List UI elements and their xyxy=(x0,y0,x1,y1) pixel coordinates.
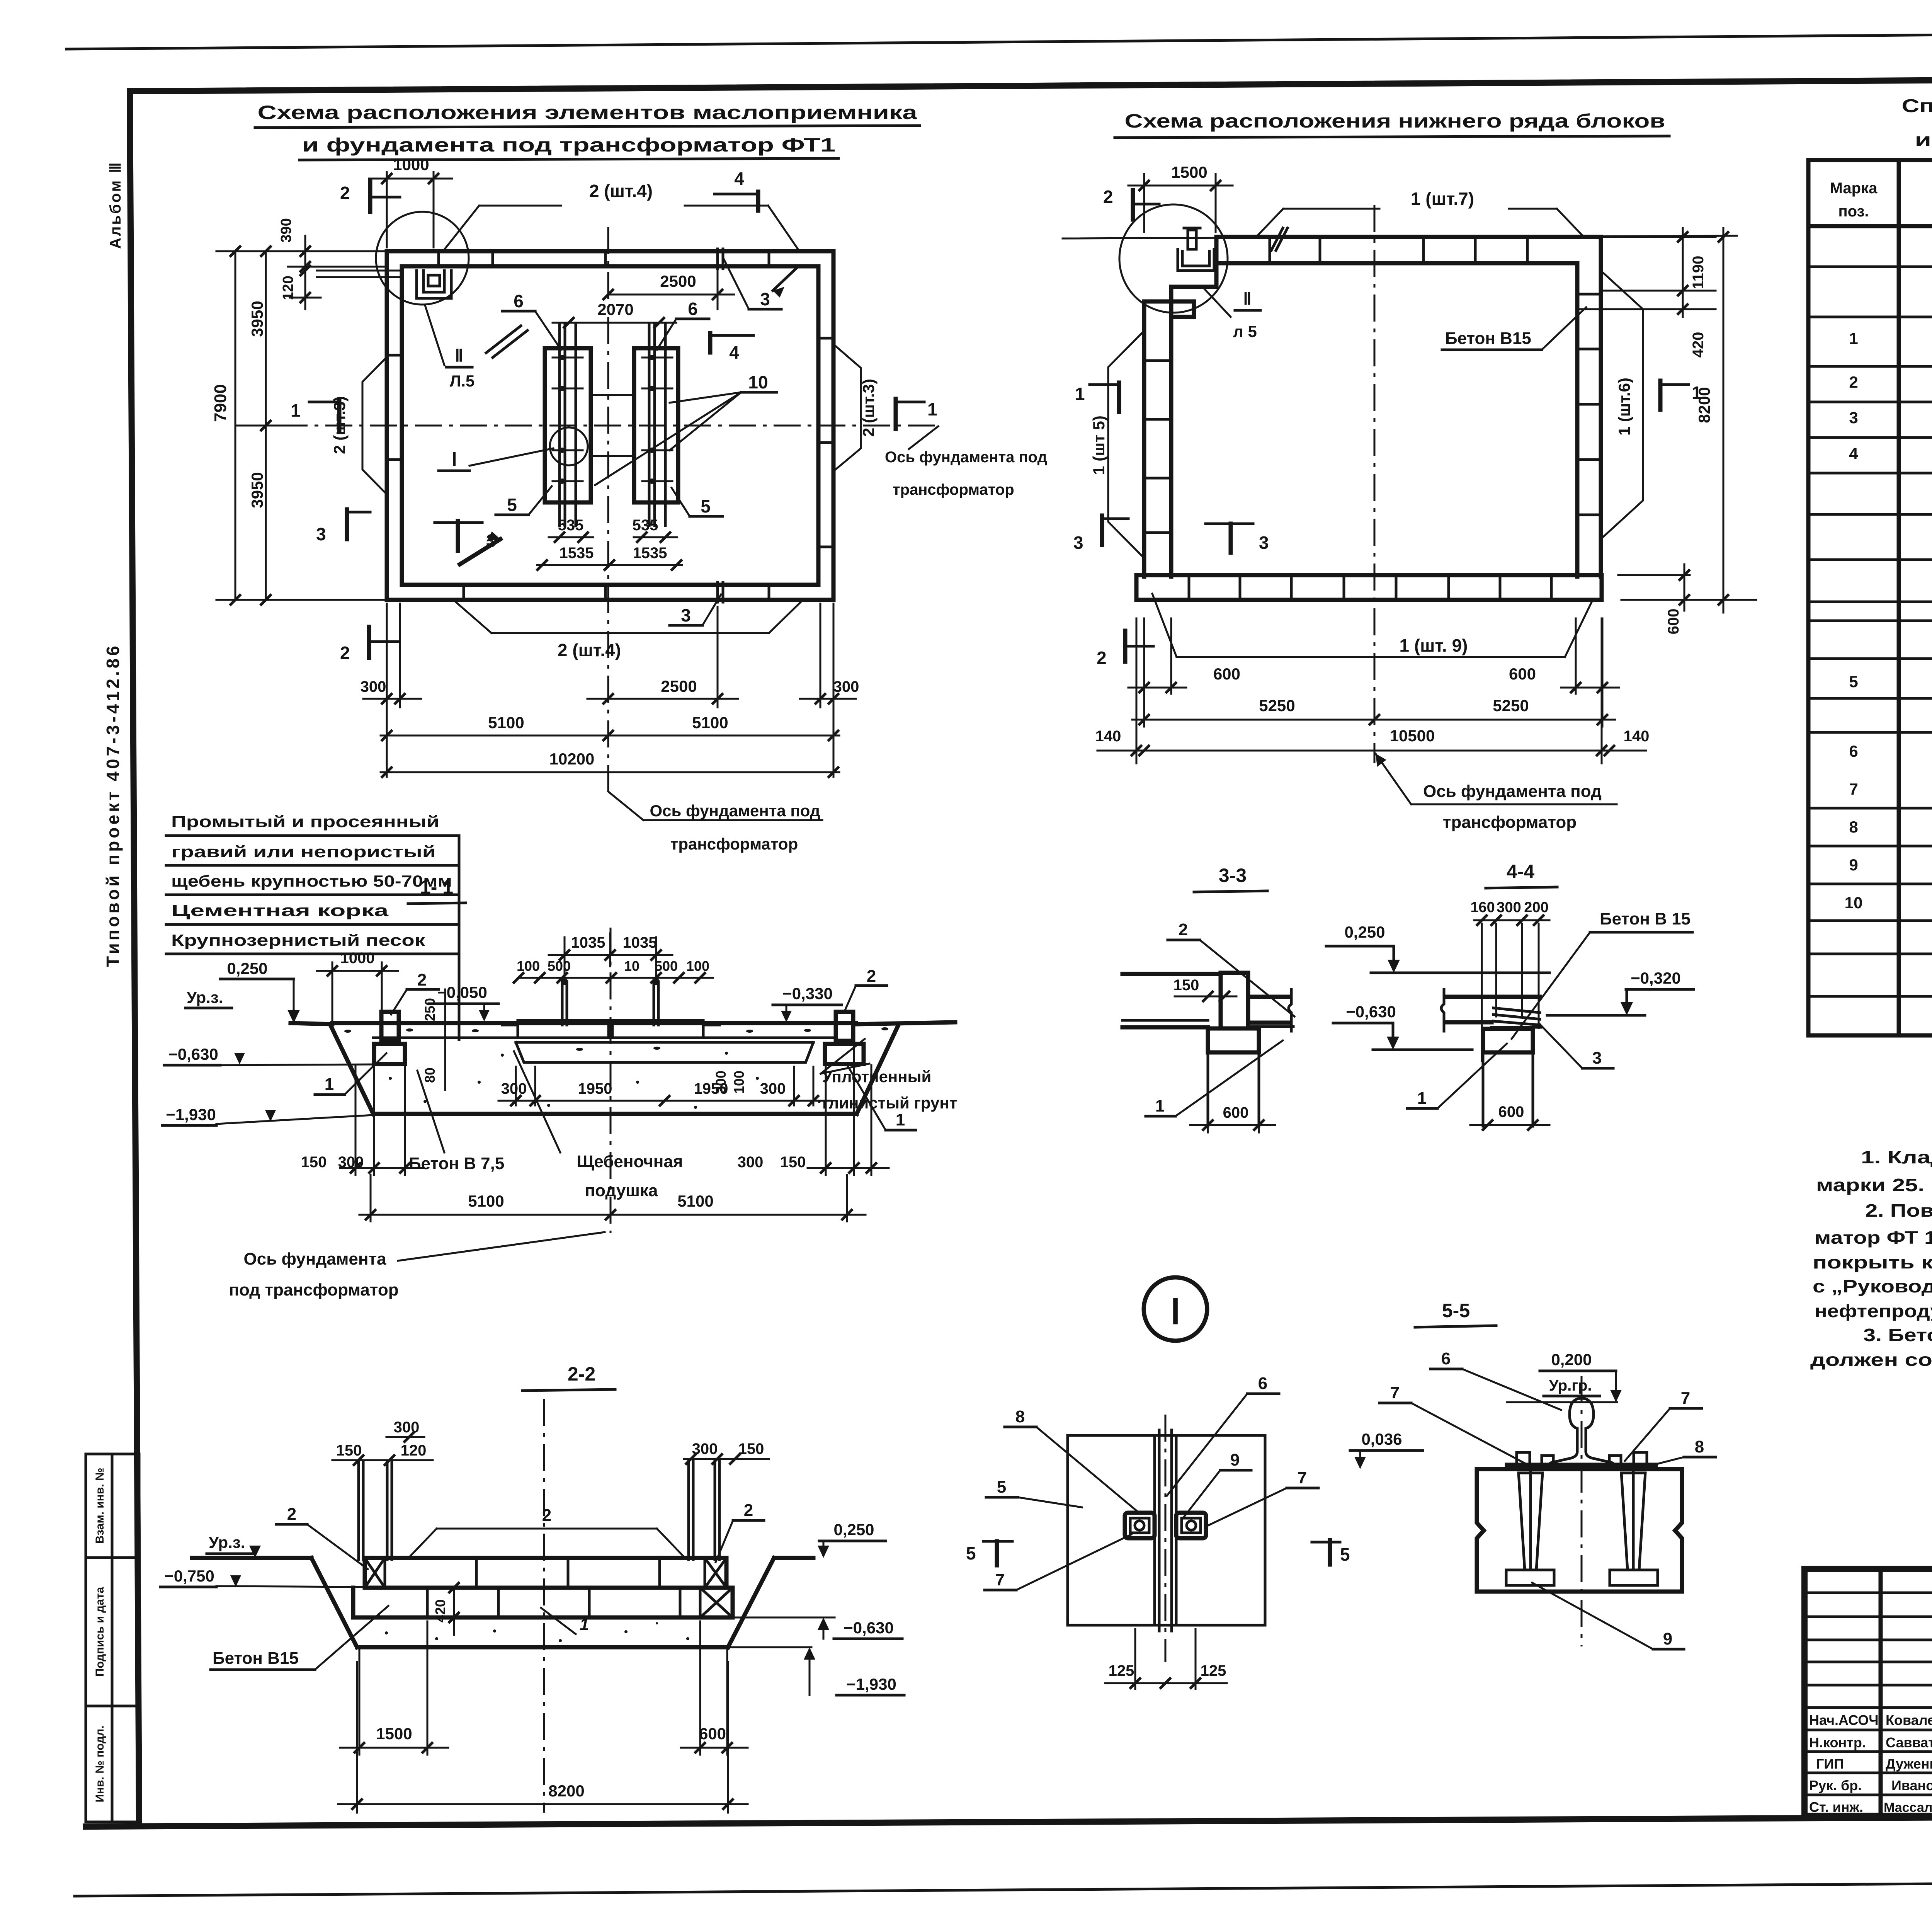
svg-text:390: 390 xyxy=(278,218,294,242)
svg-text:8200: 8200 xyxy=(1695,387,1713,423)
svg-text:Схема расположения нижнего: Схема расположения нижнего ряда блоков xyxy=(1125,110,1665,132)
corner step top-left xyxy=(1171,263,1216,287)
label II / Л5 xyxy=(1202,286,1260,340)
svg-text:Подпись и дата: Подпись и дата xyxy=(94,1587,106,1677)
svg-text:5: 5 xyxy=(1849,672,1858,691)
Уплотненный глинистый грунт xyxy=(821,1039,957,1112)
svg-text:5100: 5100 xyxy=(468,1192,504,1210)
label 1 xyxy=(541,1608,589,1634)
svg-text:Рук. бр.: Рук. бр. xyxy=(1809,1777,1862,1793)
label 1(шт.9) with bracket xyxy=(1152,594,1592,657)
svg-text:600: 600 xyxy=(1223,1104,1249,1121)
slope arrow bottom-left xyxy=(460,531,500,564)
svg-text:7: 7 xyxy=(995,1570,1005,1589)
svg-text:Альбом Ⅲ: Альбом Ⅲ xyxy=(107,161,124,249)
svg-text:200: 200 xyxy=(1524,899,1548,916)
svg-text:0,200: 0,200 xyxy=(1551,1350,1592,1369)
svg-text:140: 140 xyxy=(1095,728,1121,745)
svg-text:5250: 5250 xyxy=(1493,696,1529,715)
svg-text:150: 150 xyxy=(738,1440,764,1457)
svg-text:и фундамента под трансформ: и фундамента под трансформатор ФТ1 xyxy=(302,134,836,156)
svg-text:3-3: 3-3 xyxy=(1219,865,1247,886)
svg-text:Марка: Марка xyxy=(1830,180,1878,197)
dims 535 xyxy=(549,517,677,542)
section mark 4 lower xyxy=(710,333,753,363)
label I with leader xyxy=(439,448,553,471)
foundation block below xyxy=(1483,1029,1533,1052)
bottom dim row C: 10200 xyxy=(381,750,839,777)
svg-text:5: 5 xyxy=(966,1543,976,1563)
420 rotated dim xyxy=(432,1583,459,1635)
row lines xyxy=(1808,267,1932,996)
svg-text:120: 120 xyxy=(280,276,296,300)
svg-text:3: 3 xyxy=(760,289,770,309)
floor slab xyxy=(1445,995,1540,999)
svg-text:1: 1 xyxy=(927,399,937,419)
joint strip verticals xyxy=(1155,1430,1176,1631)
svg-text:1: 1 xyxy=(896,1110,905,1129)
center plates on floor xyxy=(518,1020,609,1038)
svg-text:160: 160 xyxy=(1470,899,1495,916)
svg-text:трансформатор: трансформатор xyxy=(893,481,1014,498)
section mark 2 top-left xyxy=(1103,187,1159,220)
top row of blocks xyxy=(365,1558,733,1588)
join hatch strip xyxy=(1492,1008,1541,1027)
svg-text:Савватеева: Савватеева xyxy=(1886,1735,1932,1750)
svg-text:2: 2 xyxy=(1179,920,1188,939)
svg-text:125: 125 xyxy=(1109,1662,1134,1679)
labels xyxy=(985,1374,1318,1590)
svg-text:нефтепродуктов"(табл.3,4) и: нефтепродуктов"(табл.3,4) и СН и П-Ⅱ-28-… xyxy=(1815,1301,1932,1321)
dim 3950 x2 xyxy=(248,247,290,604)
svg-text:2: 2 xyxy=(287,1505,296,1524)
svg-text:6: 6 xyxy=(688,299,698,319)
svg-text:5100: 5100 xyxy=(488,713,524,732)
svg-text:150: 150 xyxy=(336,1442,362,1459)
bottom-right dims 300 150 xyxy=(738,1044,889,1175)
section marks 5-5 xyxy=(966,1540,1350,1565)
section mark 3 inner xyxy=(435,521,496,551)
svg-text:5-5: 5-5 xyxy=(1442,1300,1470,1321)
svg-text:2 (шт.3): 2 (шт.3) xyxy=(859,379,878,437)
svg-text:150: 150 xyxy=(301,1154,327,1171)
top stub dims xyxy=(332,1419,769,1465)
dims 160 300 200 xyxy=(1470,899,1549,1061)
svg-text:гравий или непористый: гравий или непористый xyxy=(171,843,436,861)
svg-text:250: 250 xyxy=(422,998,438,1021)
svg-text:2 (шт.3): 2 (шт.3) xyxy=(330,396,349,454)
svg-text:−0,630: −0,630 xyxy=(844,1619,894,1637)
left margin small table xyxy=(86,1454,139,1822)
svg-text:Ковалев: Ковалев xyxy=(1886,1712,1932,1728)
svg-text:7: 7 xyxy=(1849,780,1858,798)
right foundation block 1 xyxy=(825,1044,864,1064)
ground lines xyxy=(291,1023,332,1024)
svg-text:300: 300 xyxy=(361,678,386,695)
soil speckles xyxy=(378,1614,689,1642)
drain pipe through left wall xyxy=(317,270,402,272)
pipe pos.3 marks in bands xyxy=(718,249,723,602)
detail circle II xyxy=(376,212,469,305)
upper block 2 xyxy=(1221,973,1248,1028)
level -0,630 left xyxy=(164,1045,374,1065)
svg-text:−0,630: −0,630 xyxy=(1346,1003,1396,1021)
svg-text:Крупнозернистый песок: Крупнозернистый песок xyxy=(171,931,425,949)
bracket 2 on top xyxy=(410,1506,684,1557)
svg-text:1535: 1535 xyxy=(633,545,667,562)
svg-text:2. Поверхности маслоприемника: 2. Поверхности маслоприемника и фундамен… xyxy=(1865,1200,1932,1221)
svg-text:1: 1 xyxy=(1075,384,1085,404)
svg-text:300: 300 xyxy=(738,1154,764,1171)
svg-text:5100: 5100 xyxy=(692,713,728,732)
svg-text:2: 2 xyxy=(867,967,876,986)
svg-text:1035: 1035 xyxy=(571,934,605,951)
bottom strip (нижний ряд 1 шт.9) xyxy=(1136,575,1602,600)
svg-text:9: 9 xyxy=(1230,1451,1240,1469)
section mark 3 left xyxy=(316,509,370,544)
levels xyxy=(1507,1350,1622,1402)
excavation slopes and bottom xyxy=(330,1025,373,1114)
right wall band xyxy=(1577,237,1601,577)
svg-text:420: 420 xyxy=(1690,332,1707,358)
section mark 2 bottom-left xyxy=(1097,631,1153,668)
dim 1500 xyxy=(1128,163,1233,232)
svg-text:150: 150 xyxy=(780,1154,806,1171)
right slab xyxy=(1248,995,1291,999)
svg-text:1 (шт.6): 1 (шт.6) xyxy=(1615,378,1633,436)
svg-text:10: 10 xyxy=(748,372,768,392)
rails on plates xyxy=(560,325,665,526)
svg-text:600: 600 xyxy=(699,1725,726,1743)
svg-text:150: 150 xyxy=(1173,977,1199,994)
svg-text:10: 10 xyxy=(1845,894,1863,912)
svg-text:2: 2 xyxy=(1097,648,1107,668)
svg-text:л 5: л 5 xyxy=(1233,322,1257,340)
svg-text:Ур.з.: Ур.з. xyxy=(187,988,223,1006)
level -0,320 xyxy=(1547,969,1694,1015)
svg-text:125: 125 xyxy=(1201,1662,1226,1679)
section mark 3 inner xyxy=(1206,524,1269,553)
svg-text:−0,630: −0,630 xyxy=(168,1045,218,1063)
svg-text:1 (шт 5): 1 (шт 5) xyxy=(1090,415,1108,475)
level -1,930 left xyxy=(162,1105,373,1125)
svg-text:2500: 2500 xyxy=(660,272,696,290)
svg-text:5: 5 xyxy=(1340,1544,1350,1565)
center axis xyxy=(610,928,612,1233)
label 2 left xyxy=(391,970,439,1015)
sheet outer top cut line xyxy=(66,30,1932,49)
section mark 1 left xyxy=(1075,383,1119,412)
dim 1500 xyxy=(340,1621,448,1755)
arrow top right xyxy=(773,268,797,298)
svg-text:1500: 1500 xyxy=(1171,163,1207,181)
svg-text:1: 1 xyxy=(1417,1089,1427,1108)
svg-text:6: 6 xyxy=(1258,1374,1267,1393)
bottom dim row A: 300 2500 300 xyxy=(361,604,859,777)
svg-text:Ⅱ: Ⅱ xyxy=(1243,289,1252,308)
svg-text:3. Бетон конструкций фундам: 3. Бетон конструкций фундамента под тран… xyxy=(1863,1325,1932,1345)
svg-text:100: 100 xyxy=(686,958,709,974)
svg-text:−0,750: −0,750 xyxy=(164,1567,214,1585)
axis callout right xyxy=(885,426,1047,498)
svg-text:Бетон В15: Бетон В15 xyxy=(1445,329,1531,348)
left floor band xyxy=(1122,972,1221,976)
rail xyxy=(1548,1398,1615,1469)
svg-text:2: 2 xyxy=(744,1501,753,1520)
dims 125 125 xyxy=(1105,1629,1227,1689)
concrete speckles xyxy=(344,1027,888,1109)
svg-text:1 (шт. 9): 1 (шт. 9) xyxy=(1400,635,1468,655)
svg-text:Взам. инв. №: Взам. инв. № xyxy=(94,1468,106,1544)
svg-text:300: 300 xyxy=(833,678,859,695)
dim 390 xyxy=(278,218,387,282)
Бетон В15 label xyxy=(1512,909,1692,1039)
section mark 2 top xyxy=(340,181,400,212)
dims 100 500 10 500 100 xyxy=(514,958,713,982)
svg-text:Ст. инж.: Ст. инж. xyxy=(1809,1799,1863,1815)
svg-text:2-2: 2-2 xyxy=(568,1363,595,1385)
left wall band xyxy=(1144,287,1171,577)
clamps xyxy=(1125,1513,1206,1538)
svg-text:1. Кладку из блоков выполня: 1. Кладку из блоков выполнять на цементн… xyxy=(1861,1147,1932,1167)
svg-text:535: 535 xyxy=(633,517,658,534)
svg-text:6: 6 xyxy=(1849,742,1858,760)
svg-text:600: 600 xyxy=(1509,665,1536,683)
section mark 4 top xyxy=(714,169,758,211)
svg-text:Ур.гр.: Ур.гр. xyxy=(1549,1377,1592,1394)
rebar stubs xyxy=(359,1461,719,1559)
right dim 600 strip xyxy=(1618,564,1690,634)
label 1 xyxy=(1407,1044,1507,1108)
svg-text:3: 3 xyxy=(1849,409,1858,427)
svg-text:трансформатор: трансформатор xyxy=(1443,813,1577,832)
svg-text:600: 600 xyxy=(1213,665,1240,683)
svg-text:Бетон В15: Бетон В15 xyxy=(213,1649,299,1668)
dims 300 1950 1950 300 xyxy=(498,1067,831,1105)
svg-text:7: 7 xyxy=(1390,1383,1400,1402)
bottom row of blocks xyxy=(353,1588,733,1617)
svg-text:Ⅰ: Ⅰ xyxy=(1170,1293,1181,1331)
svg-text:2: 2 xyxy=(1103,187,1113,207)
svg-text:500: 500 xyxy=(655,958,678,974)
svg-text:Бетон В 15: Бетон В 15 xyxy=(1600,909,1690,928)
svg-text:1950: 1950 xyxy=(694,1080,728,1097)
svg-text:Ⅰ: Ⅰ xyxy=(452,449,457,470)
foundation block 1 xyxy=(1208,1028,1259,1052)
label 1(шт.7) with bracket xyxy=(1257,189,1583,250)
svg-text:0,250: 0,250 xyxy=(227,959,267,977)
right dim 8200 xyxy=(1621,228,1756,613)
svg-text:300: 300 xyxy=(760,1080,786,1097)
block joints left band xyxy=(387,355,402,460)
bottom bracket 2(шт.4) xyxy=(456,602,801,660)
label 9 xyxy=(1532,1583,1684,1649)
axis xyxy=(543,1399,545,1813)
excavation xyxy=(311,1558,357,1647)
detail circle I on plate xyxy=(550,427,588,465)
section mark 1 left xyxy=(291,400,339,430)
svg-text:−0,330: −0,330 xyxy=(782,984,833,1003)
signature sub-table columns xyxy=(1879,1569,1883,1816)
dim 1035 1035 xyxy=(549,933,672,978)
svg-text:140: 140 xyxy=(1624,728,1650,745)
svg-text:Дуженкова: Дуженкова xyxy=(1886,1756,1932,1772)
svg-text:5100: 5100 xyxy=(677,1192,713,1210)
Щебеночная подушка xyxy=(514,1051,683,1200)
svg-text:1 (шт.7): 1 (шт.7) xyxy=(1411,189,1474,209)
label 2 right xyxy=(844,967,887,1012)
dim 600 xyxy=(1470,1103,1549,1130)
svg-text:3: 3 xyxy=(681,605,691,625)
svg-text:матор ФТ 1, соприкасающиеся: матор ФТ 1, соприкасающиеся с трансформа… xyxy=(1815,1227,1932,1248)
levels 0,250 / -0,630 column xyxy=(1326,923,1549,1050)
dim 7900 xyxy=(211,247,387,604)
block body with jagged sides xyxy=(1477,1469,1682,1592)
svg-text:6: 6 xyxy=(1441,1349,1451,1368)
svg-text:9: 9 xyxy=(1849,856,1858,874)
drain pipe detail at corner xyxy=(1178,228,1214,271)
svg-text:4: 4 xyxy=(729,342,739,363)
plate pos.5 left xyxy=(545,348,591,502)
svg-text:трансформатор: трансформатор xyxy=(670,835,798,853)
left upright block 2 xyxy=(381,1012,399,1041)
svg-text:поз.: поз. xyxy=(1838,203,1869,220)
label 3 top right xyxy=(723,258,781,309)
svg-text:300: 300 xyxy=(338,1154,364,1171)
svg-text:300: 300 xyxy=(501,1080,527,1097)
svg-text:Бетон В 7,5: Бетон В 7,5 xyxy=(409,1154,504,1173)
svg-text:0,250: 0,250 xyxy=(1344,923,1385,941)
floor band xyxy=(332,1021,856,1025)
svg-text:1035: 1035 xyxy=(623,934,657,951)
svg-text:Спецификация элементов масло: Спецификация элементов маслоприемника xyxy=(1902,96,1932,116)
svg-text:1950: 1950 xyxy=(578,1080,612,1097)
right upright block 2 xyxy=(836,1012,853,1041)
base plate xyxy=(1507,1463,1656,1467)
axes xyxy=(236,425,939,427)
axis callout bottom xyxy=(1376,754,1617,832)
label 3 bottom xyxy=(670,594,721,625)
svg-text:Схема расположения элементов: Схема расположения элементов маслоприемн… xyxy=(258,102,918,123)
dim 150 xyxy=(1173,977,1236,1001)
svg-text:должен соответствовать по: должен соответствовать по водонепроницае… xyxy=(1810,1350,1932,1370)
label II / Л.5 xyxy=(425,305,474,390)
svg-text:9: 9 xyxy=(1663,1629,1672,1648)
labels 5 xyxy=(496,486,723,516)
svg-text:2: 2 xyxy=(417,970,427,989)
svg-text:10200: 10200 xyxy=(549,750,595,768)
labels 6 xyxy=(502,291,709,350)
dim 5100 5100 xyxy=(359,1175,866,1221)
svg-text:Иванов: Иванов xyxy=(1891,1777,1932,1793)
svg-text:Массальская: Массальская xyxy=(1884,1800,1932,1815)
anchor wedges xyxy=(1506,1465,1658,1585)
labels 1 xyxy=(315,1053,916,1130)
signature sub-table rows xyxy=(1804,1592,1932,1594)
axis vertical xyxy=(1374,205,1376,763)
svg-text:10: 10 xyxy=(624,958,639,974)
dim 120 xyxy=(280,266,321,309)
svg-text:Ось фундамента под: Ось фундамента под xyxy=(885,449,1047,466)
svg-text:1535: 1535 xyxy=(560,545,594,562)
drain box (сальник) nested squares xyxy=(417,271,451,298)
dim 600 right xyxy=(681,1621,748,1755)
diagonal double slash xyxy=(486,326,521,353)
block joints top band xyxy=(439,251,769,266)
svg-text:7: 7 xyxy=(1298,1468,1307,1487)
axis callout xyxy=(229,1232,605,1299)
labels 2 xyxy=(276,1501,764,1569)
pit wall outline outer xyxy=(387,251,833,600)
svg-text:1- 1: 1- 1 xyxy=(420,876,453,898)
svg-text:и фундамента под трансформа: и фундамента под трансформатор ФТ1 xyxy=(1915,130,1932,150)
svg-text:щебень крупностью 50-70мм: щебень крупностью 50-70мм xyxy=(171,872,452,890)
svg-text:4-4: 4-4 xyxy=(1507,861,1534,882)
svg-text:2: 2 xyxy=(340,183,350,203)
svg-text:1: 1 xyxy=(1155,1096,1165,1115)
ground line xyxy=(192,1556,311,1560)
svg-text:Ось фундамента под: Ось фундамента под xyxy=(1423,782,1602,801)
svg-text:3950: 3950 xyxy=(248,472,266,508)
dim 1000 top-left xyxy=(317,950,398,1020)
svg-text:Типовой проект 407-3-412.86: Типовой проект 407-3-412.86 xyxy=(103,643,123,967)
svg-text:7: 7 xyxy=(1681,1389,1690,1408)
svg-text:1500: 1500 xyxy=(376,1725,412,1743)
dim 2070 xyxy=(553,300,676,327)
svg-text:80: 80 xyxy=(422,1067,438,1083)
svg-text:2 (шт.4): 2 (шт.4) xyxy=(589,181,653,201)
svg-text:8: 8 xyxy=(1849,818,1858,836)
section mark 3 left xyxy=(1073,516,1128,553)
sheet outer bottom cut line xyxy=(75,1879,1932,1896)
row contents xyxy=(1845,242,1932,1026)
under-step (podushka) xyxy=(516,1042,813,1062)
label 1 xyxy=(1146,1040,1283,1116)
svg-text:Цементная корка: Цементная корка xyxy=(171,901,389,919)
svg-text:5: 5 xyxy=(997,1478,1006,1496)
svg-text:Щебеночная: Щебеночная xyxy=(577,1152,683,1171)
small bolts on plate xyxy=(1517,1452,1647,1465)
label 2(шт.4) top with bracket xyxy=(444,181,798,250)
svg-text:−0,320: −0,320 xyxy=(1631,969,1681,987)
svg-text:под трансформатор: под трансформатор xyxy=(229,1280,398,1299)
svg-text:3: 3 xyxy=(1592,1049,1602,1067)
detail circle II xyxy=(1119,204,1228,313)
svg-text:5: 5 xyxy=(507,495,517,515)
svg-text:8: 8 xyxy=(1015,1407,1025,1426)
svg-text:3: 3 xyxy=(316,524,326,544)
anchor bolts xyxy=(562,982,658,1025)
dim 10500 with 140s xyxy=(1095,618,1650,763)
pit wall outline inner xyxy=(402,266,818,585)
svg-text:3: 3 xyxy=(1259,533,1269,553)
svg-text:100: 100 xyxy=(731,1071,747,1094)
svg-text:Ⅱ: Ⅱ xyxy=(455,346,463,365)
svg-text:1190: 1190 xyxy=(1690,256,1707,289)
svg-text:4: 4 xyxy=(1849,444,1858,463)
label 10 with fan leaders xyxy=(595,372,777,485)
svg-text:100: 100 xyxy=(517,958,540,974)
rotated label 1(шт.6) with bracket xyxy=(1603,272,1643,537)
right dims 1190 420 xyxy=(1577,228,1716,358)
rotated labels 2(шт.3) with brackets xyxy=(330,346,878,493)
svg-text:с „Руководством по защите ж: с „Руководством по защите железобетонных… xyxy=(1813,1276,1932,1296)
dims 1535 xyxy=(537,545,682,570)
labels 6 7 7 8 xyxy=(1379,1349,1716,1469)
Бетон В15 label xyxy=(211,1606,388,1670)
dim 600 xyxy=(1190,1104,1275,1132)
top level line xyxy=(1063,236,1737,238)
